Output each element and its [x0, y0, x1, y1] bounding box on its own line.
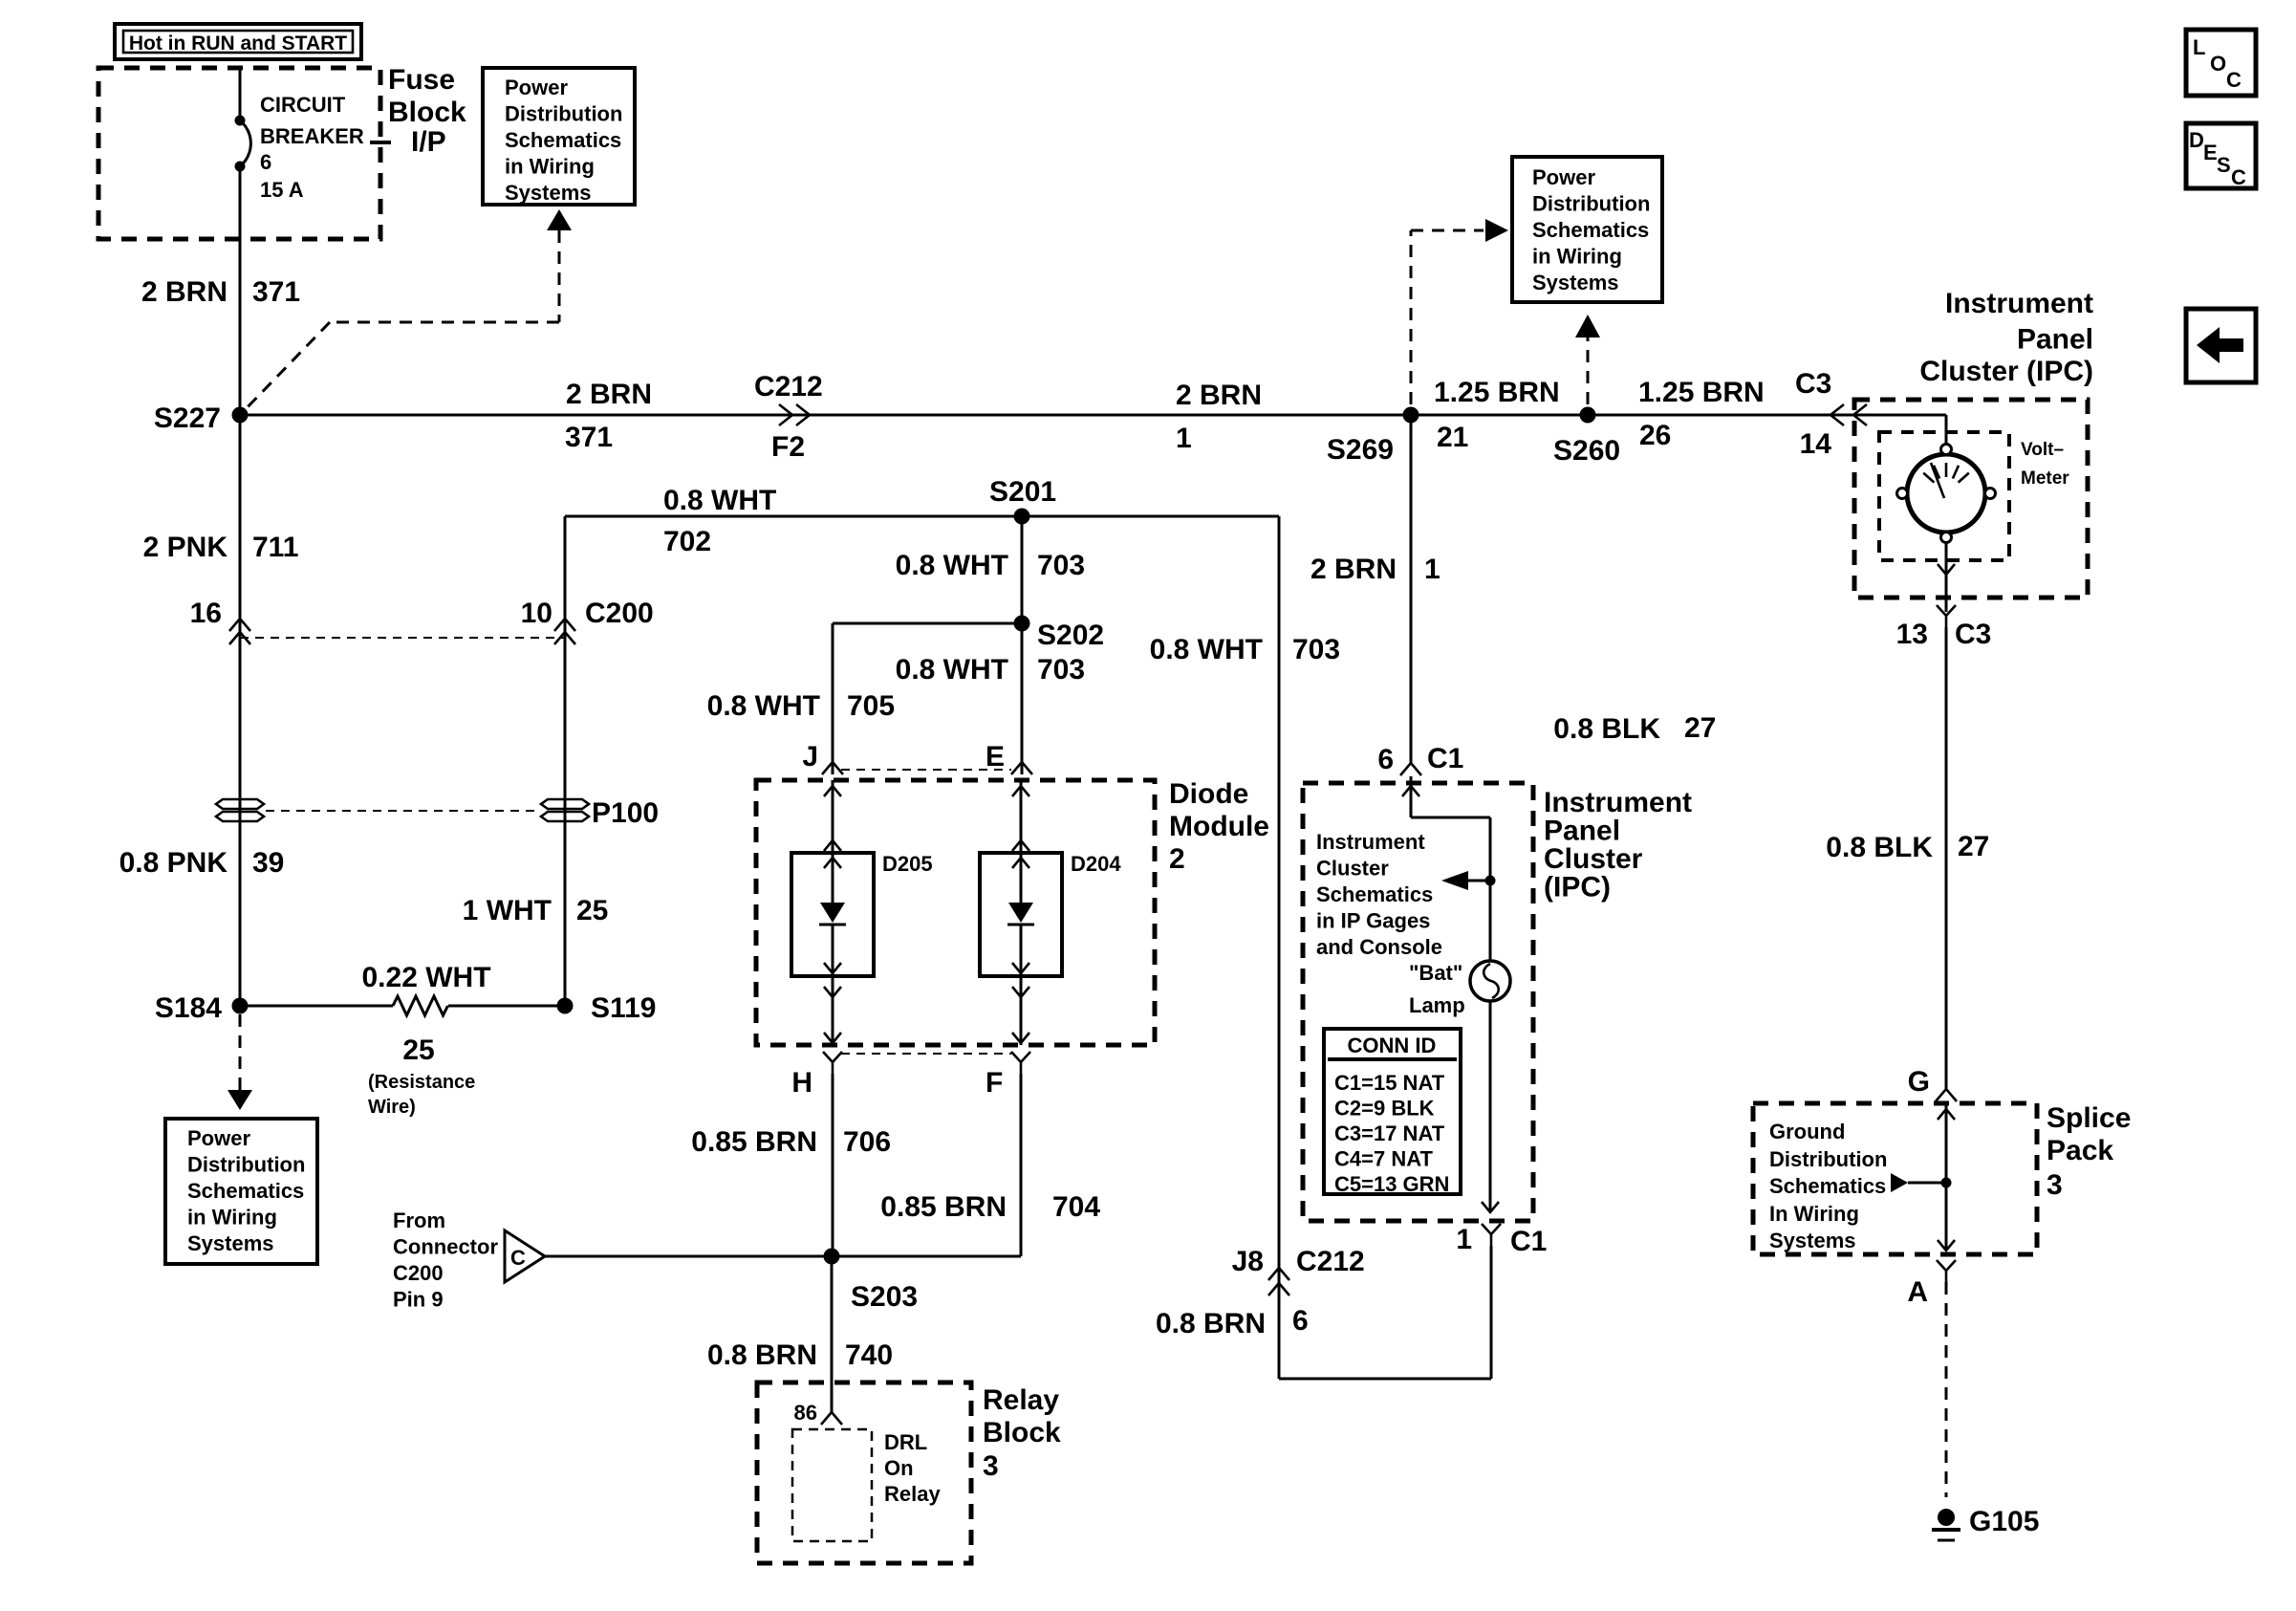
- label box "Hot in RUN and START": [115, 24, 361, 59]
- svg-text:Relay: Relay: [983, 1384, 1059, 1416]
- svg-text:Panel: Panel: [2017, 324, 2093, 356]
- svg-text:15 A: 15 A: [260, 178, 304, 202]
- svg-text:Cluster (IPC): Cluster (IPC): [1919, 356, 2093, 387]
- svg-text:702: 702: [663, 526, 711, 557]
- diode D205: [791, 780, 933, 1045]
- reference box Power Distribution Schematics in Wiring Systems (bottom left): [165, 1119, 317, 1264]
- wire branch S202 to diode module pin J: [833, 623, 1022, 774]
- svg-text:L: L: [2193, 35, 2205, 59]
- svg-text:D: D: [2189, 128, 2204, 152]
- svg-text:J: J: [802, 741, 818, 773]
- svg-text:0.8 WHT: 0.8 WHT: [896, 654, 1008, 686]
- svg-text:C1: C1: [1427, 743, 1463, 774]
- svg-text:Hot in RUN and START: Hot in RUN and START: [129, 33, 347, 54]
- svg-text:26: 26: [1639, 420, 1671, 451]
- svg-text:G: G: [1908, 1066, 1930, 1098]
- svg-text:Pack: Pack: [2047, 1135, 2113, 1166]
- svg-text:Systems: Systems: [1532, 271, 1619, 294]
- grommet P100 on right wire: [541, 797, 659, 829]
- wire 0.85 BRN 704 F to S203: [833, 1074, 1021, 1256]
- connector C3 pin 14: [1795, 368, 1867, 460]
- instrument panel cluster IPC dashed box (middle): [1303, 783, 1533, 1221]
- svg-text:C200: C200: [585, 598, 654, 629]
- component label Diode Module 2: [1169, 778, 1269, 875]
- svg-text:J8: J8: [1232, 1246, 1264, 1277]
- svg-text:(IPC): (IPC): [1544, 872, 1611, 903]
- relay block pin 86: [794, 1401, 842, 1425]
- svg-text:Diode: Diode: [1169, 778, 1248, 810]
- svg-text:E: E: [986, 741, 1005, 773]
- svg-text:Volt–: Volt–: [2021, 440, 2064, 460]
- connector C200 pin 10 on right wire: [521, 598, 654, 644]
- svg-text:2: 2: [1169, 843, 1185, 875]
- svg-text:1.25 BRN: 1.25 BRN: [1638, 377, 1765, 408]
- reference box Power Distribution Schematics in Wiring Systems (top left): [483, 68, 635, 205]
- svg-text:25: 25: [576, 895, 608, 926]
- svg-text:Systems: Systems: [505, 181, 592, 205]
- svg-text:in Wiring: in Wiring: [505, 155, 595, 179]
- svg-text:S202: S202: [1037, 620, 1104, 651]
- resistance wire 0.22 WHT 25 with resistor symbol: [240, 962, 565, 1118]
- svg-text:in IP Gages: in IP Gages: [1316, 909, 1430, 933]
- CONN ID table: [1324, 1029, 1461, 1196]
- svg-text:C: C: [2231, 165, 2246, 189]
- svg-text:Systems: Systems: [1769, 1229, 1856, 1252]
- dashed connector tie line H-F: [841, 1053, 1011, 1055]
- svg-text:25: 25: [402, 1034, 434, 1066]
- svg-text:0.8 PNK: 0.8 PNK: [119, 847, 228, 879]
- svg-text:2 BRN: 2 BRN: [566, 379, 652, 410]
- splice S184: [155, 992, 249, 1024]
- svg-text:C2=9 BLK: C2=9 BLK: [1334, 1097, 1435, 1121]
- svg-text:86: 86: [794, 1401, 817, 1425]
- svg-text:27: 27: [1684, 712, 1716, 744]
- DESC reference box: [2186, 123, 2256, 189]
- svg-text:C1=15 NAT: C1=15 NAT: [1334, 1071, 1445, 1095]
- svg-text:0.85 BRN: 0.85 BRN: [880, 1191, 1007, 1223]
- svg-text:0.85 BRN: 0.85 BRN: [691, 1126, 817, 1158]
- svg-text:703: 703: [1037, 550, 1085, 581]
- wire 2 PNK 711 / 0.8 PNK 39 from S227 down to S184: [239, 415, 242, 1006]
- svg-text:0.8 BLK: 0.8 BLK: [1826, 832, 1933, 863]
- main wire 2 BRN 371 from S227 to IPC C3: [240, 414, 1946, 417]
- svg-text:703: 703: [1292, 634, 1340, 665]
- dashed ground wire to G105: [1945, 1282, 1948, 1497]
- label 1.25 BRN 21: [1434, 377, 1560, 453]
- svg-text:13: 13: [1896, 619, 1928, 650]
- svg-text:2 PNK: 2 PNK: [143, 532, 228, 563]
- connector C200 dashed tie line: [240, 637, 565, 639]
- diode module 2 dashed box: [756, 780, 1155, 1045]
- wire from hot feed into circuit breaker: [239, 68, 242, 120]
- svg-text:740: 740: [845, 1339, 893, 1371]
- svg-text:C3=17 NAT: C3=17 NAT: [1334, 1121, 1445, 1145]
- svg-text:1: 1: [1176, 423, 1192, 454]
- svg-text:D204: D204: [1071, 852, 1121, 876]
- svg-text:A: A: [1907, 1276, 1928, 1308]
- svg-text:1 WHT: 1 WHT: [463, 895, 552, 926]
- svg-text:Schematics: Schematics: [1769, 1174, 1886, 1198]
- svg-text:S201: S201: [989, 476, 1056, 508]
- svg-text:371: 371: [252, 276, 300, 308]
- svg-text:Connector: Connector: [393, 1235, 498, 1259]
- svg-text:From: From: [393, 1208, 445, 1232]
- svg-text:0.8 BLK: 0.8 BLK: [1553, 713, 1660, 745]
- splice S269: [1327, 407, 1419, 467]
- splice pack internal wire and node: [1891, 1101, 1955, 1251]
- svg-text:in Wiring: in Wiring: [187, 1206, 277, 1230]
- svg-text:Pin 9: Pin 9: [393, 1288, 444, 1312]
- component label Splice Pack 3: [2047, 1102, 2131, 1201]
- diode module pin F: [986, 1052, 1030, 1099]
- svg-text:S269: S269: [1327, 434, 1394, 466]
- LOC reference box: [2186, 30, 2256, 96]
- svg-text:P100: P100: [592, 797, 659, 829]
- svg-text:2 BRN: 2 BRN: [1176, 380, 1262, 411]
- wire 1 WHT 25 S119 up to 702 corner: [564, 516, 567, 1006]
- wire 0.8 WHT 703 from S201 run to C212 J8: [1278, 516, 1281, 1379]
- svg-text:DRL: DRL: [884, 1430, 927, 1454]
- svg-text:C1: C1: [1510, 1226, 1547, 1257]
- dashed connector tie line J-E: [841, 769, 1011, 771]
- off-page connector C from connector C200 pin 9: [505, 1230, 833, 1282]
- component label Instrument Panel Cluster IPC (middle): [1544, 787, 1692, 903]
- IPC internal wire from pin 6 to Bat lamp: [1402, 776, 1490, 962]
- label 0.8 PNK 39: [119, 847, 285, 879]
- IPC internal wire lamp to pin 1: [1482, 1000, 1499, 1212]
- wire 0.8 BRN 740 S203 to relay block: [831, 1256, 834, 1412]
- svg-text:Schematics: Schematics: [505, 128, 621, 152]
- splice S203: [824, 1249, 919, 1314]
- svg-text:21: 21: [1437, 422, 1468, 453]
- label 0.8 WHT 703 (S202-E): [896, 654, 1085, 686]
- wire 0.8 BLK 27 down to splice pack: [1945, 627, 1948, 1089]
- svg-text:0.22 WHT: 0.22 WHT: [361, 962, 490, 993]
- connector C200 pin 16 on left wire: [190, 598, 250, 644]
- svg-text:3: 3: [2047, 1169, 2063, 1201]
- fuse block dashed box: [98, 68, 380, 239]
- svg-text:704: 704: [1052, 1191, 1100, 1223]
- splice S119: [557, 992, 657, 1024]
- label 0.8 BRN 740: [707, 1339, 893, 1371]
- label 2 PNK 711: [143, 532, 299, 563]
- svg-text:C3: C3: [1795, 368, 1831, 400]
- svg-text:C200: C200: [393, 1261, 444, 1285]
- svg-text:1: 1: [1456, 1224, 1472, 1255]
- svg-text:0.8 WHT: 0.8 WHT: [663, 485, 776, 516]
- svg-text:Instrument: Instrument: [1544, 787, 1692, 818]
- svg-text:Module: Module: [1169, 811, 1269, 842]
- label Volt-Meter: [2021, 440, 2069, 489]
- label 0.85 BRN 704: [880, 1191, 1100, 1223]
- connector C3 pin 13: [1896, 605, 1992, 650]
- svg-text:S: S: [2217, 153, 2231, 177]
- svg-text:Panel: Panel: [1544, 816, 1620, 847]
- label 2 BRN 371 horizontal run: [565, 379, 652, 453]
- wire into voltmeter: [1945, 415, 1948, 444]
- svg-text:16: 16: [190, 598, 222, 629]
- label 0.8 BLK 27 (floating mid): [1553, 712, 1716, 745]
- svg-text:Instrument: Instrument: [1945, 288, 2093, 319]
- svg-text:S203: S203: [851, 1281, 918, 1313]
- svg-text:D205: D205: [882, 852, 933, 876]
- connector C1 pin 1 below IPC: [1456, 1224, 1547, 1257]
- grommet P100 dashed tie line: [266, 810, 539, 812]
- reference box Power Distribution Schematics in Wiring Systems (top center): [1512, 157, 1662, 302]
- DRL On Relay inner dashed box: [792, 1429, 941, 1541]
- voltmeter gauge symbol: [1897, 445, 1996, 543]
- wire 2 BRN 371 breaker to S227: [239, 166, 242, 415]
- label 0.85 BRN 706: [691, 1126, 891, 1158]
- splice pack 3 dashed box: [1753, 1103, 2037, 1254]
- svg-text:CIRCUIT: CIRCUIT: [260, 93, 346, 117]
- svg-text:703: 703: [1037, 654, 1085, 686]
- svg-text:2 BRN: 2 BRN: [1310, 554, 1397, 585]
- svg-text:705: 705: [847, 690, 895, 722]
- svg-text:S184: S184: [155, 992, 222, 1024]
- diode D204: [980, 780, 1121, 1045]
- svg-text:(Resistance: (Resistance: [368, 1072, 475, 1093]
- svg-text:S119: S119: [591, 992, 656, 1024]
- splice S201: [989, 476, 1056, 525]
- instrument panel cluster IPC dashed box (top right): [1854, 400, 2088, 598]
- svg-text:Meter: Meter: [2021, 468, 2069, 489]
- svg-text:711: 711: [252, 532, 298, 563]
- splice pack pin G: [1908, 1066, 1957, 1101]
- svg-text:E: E: [2203, 141, 2218, 164]
- splice S202: [1014, 616, 1105, 652]
- splice pack pin A: [1907, 1260, 1956, 1308]
- svg-text:I/P: I/P: [411, 126, 446, 158]
- svg-text:C212: C212: [1296, 1246, 1365, 1277]
- label 0.8 WHT 702: [663, 485, 776, 557]
- annotation Ground Distribution Schematics In Wiring Systems: [1769, 1120, 1887, 1252]
- label 0.8 WHT 703 (right vertical): [1150, 634, 1340, 665]
- wire S202 down to diode module pin E: [1021, 623, 1024, 774]
- svg-text:Wire): Wire): [368, 1097, 416, 1118]
- label 1 WHT 25: [463, 895, 609, 926]
- svg-text:Distribution: Distribution: [505, 102, 622, 126]
- svg-text:371: 371: [565, 422, 613, 453]
- svg-text:0.8 WHT: 0.8 WHT: [707, 690, 820, 722]
- wire 0.8 BRN 6 loop from IPC pin1 to C212 J8: [1279, 1246, 1491, 1379]
- svg-text:On: On: [884, 1456, 914, 1480]
- svg-text:2 BRN: 2 BRN: [141, 276, 227, 308]
- svg-text:0.8 BRN: 0.8 BRN: [1156, 1308, 1266, 1339]
- svg-text:706: 706: [843, 1126, 891, 1158]
- dashed reference line S269 to power box (top center): [1411, 219, 1508, 404]
- label 0.8 BRN 6 (below J8): [1156, 1305, 1309, 1339]
- svg-text:Power: Power: [1532, 165, 1595, 189]
- svg-text:0.8 WHT: 0.8 WHT: [1150, 634, 1263, 665]
- label 0.8 WHT 705: [707, 690, 895, 722]
- svg-text:27: 27: [1958, 831, 1989, 862]
- voltmeter inner dashed box: [1879, 432, 2009, 560]
- svg-text:O: O: [2210, 52, 2226, 76]
- label 2 BRN 1 (S269 branch): [1310, 554, 1440, 585]
- diode module pin H: [791, 1052, 842, 1099]
- connector C1 pin 6 into IPC: [1377, 743, 1463, 775]
- svg-text:6: 6: [1377, 744, 1394, 775]
- svg-text:Fuse: Fuse: [388, 64, 455, 96]
- diode module pin E: [986, 741, 1032, 774]
- svg-text:Block: Block: [388, 97, 466, 128]
- svg-text:1.25 BRN: 1.25 BRN: [1434, 377, 1560, 408]
- label 1.25 BRN 26: [1638, 377, 1765, 451]
- dashed reference arrow from S184 to power distribution box (bottom left): [227, 1014, 252, 1110]
- label 0.8 WHT 703 (S201-S202): [896, 550, 1085, 581]
- svg-text:Distribution: Distribution: [1532, 192, 1650, 216]
- svg-text:Cluster: Cluster: [1544, 843, 1643, 875]
- component label Relay Block 3: [983, 1384, 1061, 1482]
- circuit breaker 6 15A: [235, 93, 364, 202]
- svg-text:3: 3: [983, 1450, 999, 1482]
- svg-text:S227: S227: [154, 403, 221, 434]
- svg-text:39: 39: [252, 847, 284, 879]
- dashed reference arrow S260 to power box (top center): [1575, 315, 1600, 404]
- wire 0.8 WHT 702 horizontal: [565, 515, 1279, 518]
- "Bat" lamp indicator 3: [1409, 961, 1510, 1017]
- svg-text:CONN ID: CONN ID: [1348, 1034, 1437, 1057]
- svg-text:Systems: Systems: [187, 1231, 274, 1255]
- splice S227: [154, 403, 249, 434]
- wire 0.8 WHT 703 S201 to S202: [1021, 516, 1024, 623]
- svg-text:G105: G105: [1969, 1506, 2039, 1537]
- svg-text:C3: C3: [1955, 619, 1991, 650]
- svg-text:Ground: Ground: [1769, 1120, 1845, 1143]
- svg-text:Distribution: Distribution: [187, 1153, 305, 1177]
- svg-text:S260: S260: [1553, 435, 1620, 467]
- svg-text:F2: F2: [771, 431, 805, 463]
- label 0.8 BLK 27 (right): [1826, 831, 1989, 863]
- svg-text:C: C: [2226, 68, 2242, 92]
- svg-text:Distribution: Distribution: [1769, 1147, 1887, 1171]
- svg-text:Cluster: Cluster: [1316, 857, 1389, 881]
- svg-text:6: 6: [1292, 1305, 1309, 1337]
- svg-text:C: C: [510, 1246, 526, 1270]
- svg-text:Schematics: Schematics: [1532, 218, 1649, 242]
- svg-text:Splice: Splice: [2047, 1102, 2131, 1134]
- svg-text:H: H: [791, 1067, 812, 1099]
- svg-text:Power: Power: [505, 76, 568, 99]
- wire 0.85 BRN 706 H to S203: [832, 1074, 834, 1256]
- svg-text:Schematics: Schematics: [1316, 882, 1433, 906]
- grommet P100 on left wire: [216, 799, 264, 821]
- svg-text:C5=13 GRN: C5=13 GRN: [1334, 1172, 1449, 1196]
- svg-text:Lamp: Lamp: [1409, 993, 1465, 1017]
- svg-text:Relay: Relay: [884, 1482, 941, 1506]
- splice S260: [1553, 407, 1620, 468]
- label From Connector C200 Pin 9: [393, 1208, 498, 1312]
- back arrow box: [2186, 309, 2256, 382]
- ground G105: [1932, 1506, 2039, 1540]
- svg-text:F: F: [986, 1067, 1003, 1099]
- diode module pin J: [802, 741, 843, 774]
- label 2 BRN 371 vertical feed: [141, 276, 300, 308]
- svg-text:10: 10: [521, 598, 552, 629]
- relay block 3 dashed box: [757, 1382, 971, 1563]
- svg-text:Schematics: Schematics: [187, 1179, 304, 1203]
- component label Fuse Block - I/P: [370, 64, 466, 158]
- svg-text:14: 14: [1800, 428, 1832, 460]
- dashed reference arrow from S227 to power distribution box (top left): [240, 209, 572, 415]
- svg-text:0.8 BRN: 0.8 BRN: [707, 1339, 817, 1371]
- connector C212 pin J8: [1232, 1246, 1365, 1295]
- svg-text:6: 6: [260, 150, 271, 174]
- svg-text:C212: C212: [754, 371, 823, 403]
- connector C212 pin F2: [754, 371, 823, 463]
- svg-text:C4=7 NAT: C4=7 NAT: [1334, 1147, 1433, 1171]
- svg-text:"Bat": "Bat": [1409, 961, 1462, 985]
- svg-text:In Wiring: In Wiring: [1769, 1202, 1859, 1226]
- reference arrow to instrument cluster schematics: [1441, 871, 1496, 890]
- svg-text:Block: Block: [983, 1417, 1061, 1448]
- svg-text:1: 1: [1424, 554, 1440, 585]
- annotation Instrument Cluster Schematics in IP Gages and Console: [1316, 830, 1442, 959]
- svg-text:0.8 WHT: 0.8 WHT: [896, 550, 1008, 581]
- svg-text:Instrument: Instrument: [1316, 830, 1425, 854]
- label 2 BRN 1: [1176, 380, 1262, 454]
- component label Instrument Panel Cluster IPC (top right): [1919, 288, 2093, 387]
- svg-text:Power: Power: [187, 1126, 250, 1150]
- svg-text:BREAKER: BREAKER: [260, 124, 364, 148]
- svg-text:and Console: and Console: [1316, 935, 1442, 959]
- wire 2 BRN 1 from S269 to IPC C1 pin 6: [1410, 415, 1413, 763]
- svg-text:in Wiring: in Wiring: [1532, 245, 1622, 269]
- wire voltmeter to C3 pin 13: [1938, 543, 1955, 612]
